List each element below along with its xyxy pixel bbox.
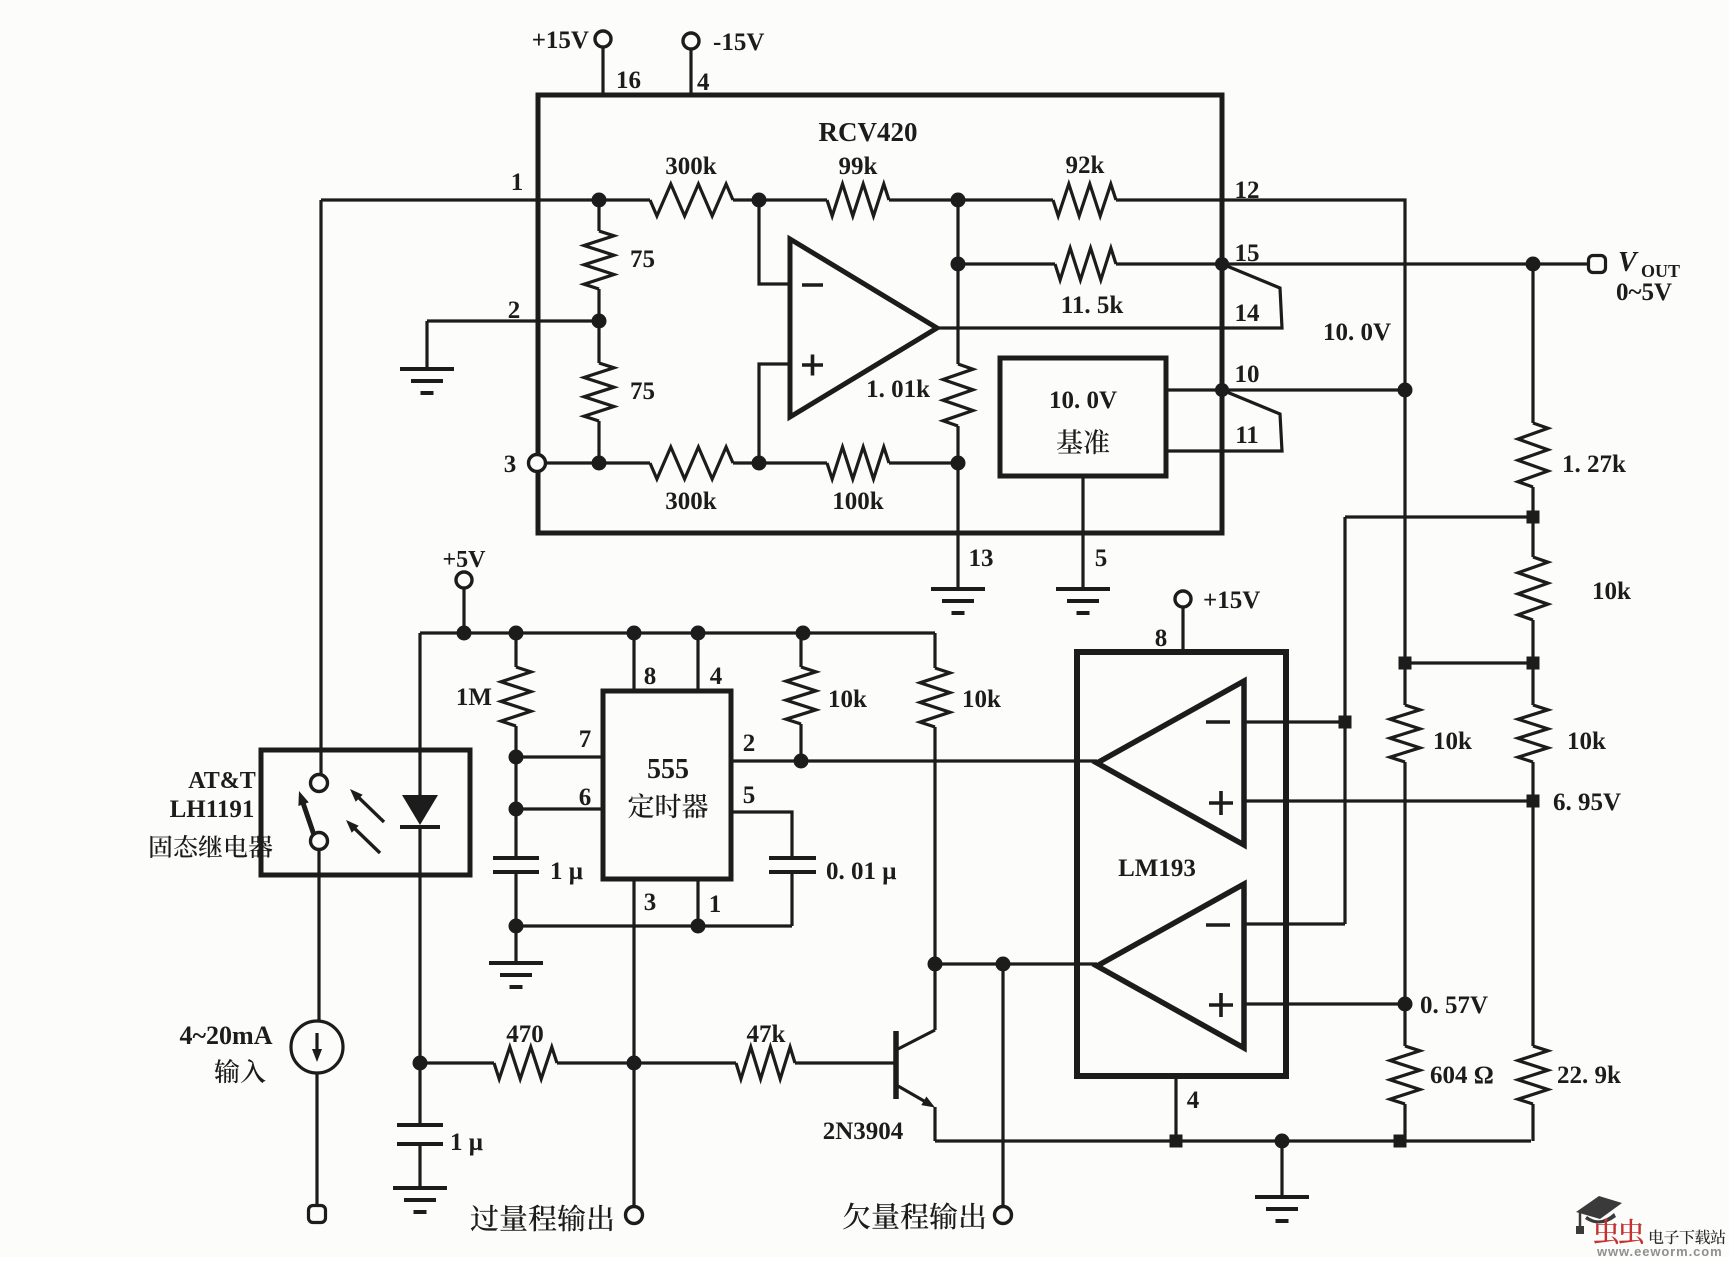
wire underrange output [1001,964,1004,1206]
junction upper comparator minus [1339,716,1352,729]
junction 555 pin 4 [691,626,706,641]
svg-text:4~20mA: 4~20mA [180,1021,273,1050]
junction node 0.57V [1398,997,1413,1012]
wire -15V to pin 4 [689,49,692,95]
wire 0.01u cap to ground row [790,872,793,926]
wire pin 13 to ground [956,533,959,589]
wire 1.01k to pin 13 [956,426,959,533]
wire 470 to 47k [557,1061,736,1064]
svg-text:16: 16 [616,67,641,94]
svg-text:1: 1 [511,169,524,196]
svg-text:14: 14 [1235,300,1261,327]
svg-text:10: 10 [1235,361,1260,388]
svg-text:604 Ω: 604 Ω [1430,1062,1494,1089]
ground at LM193 bus [1255,1197,1309,1221]
terminal +5V [456,572,472,588]
wire current source to input terminal [315,1073,318,1206]
resistor 604 ohm [1390,1046,1420,1104]
resistor 10k (above 0.57V) [1390,705,1420,762]
terminal 4-20mA input return [309,1206,326,1223]
resistor 100k [827,447,889,479]
junction tap B right [1527,657,1540,670]
resistor 1.27k [1518,423,1548,487]
junction pin1/75 top [592,193,607,208]
wire LED cathode node to 470 [420,1061,494,1064]
wire 555 pin 2 to comparator output [731,759,1097,762]
svg-text:11: 11 [1235,422,1259,449]
svg-text:6. 95V: 6. 95V [1553,789,1621,816]
wire reference out to pin 10 [1166,388,1222,391]
resistor 75 (upper) [597,200,600,231]
junction ground symbol [1275,1134,1290,1149]
resistor 75 (lower) [584,363,614,421]
resistor 300k (bottom) [650,447,733,479]
svg-text:470: 470 [506,1021,544,1048]
switch blade arrowhead [298,791,308,806]
svg-text:5: 5 [743,782,756,809]
svg-text:-15V: -15V [713,29,764,56]
relay switch lower contact [311,833,328,850]
wire 10k to tap B [1531,620,1534,663]
junction pin2/75 [592,314,607,329]
svg-text:75: 75 [630,378,655,405]
comparator U3B minus sign [1206,923,1230,927]
wire to 555 pin 6 [516,807,603,810]
wire collector diagonal [898,1030,935,1049]
junction cap ground node [509,919,524,934]
junction +5V [457,626,472,641]
wire VOUT down to 1.27k [1531,264,1534,423]
wire U3A plus input to 6.95V [1244,799,1531,802]
junction 1M top [509,626,524,641]
op-amp plus sign [802,355,823,376]
wire bus to 555 pin 4 [696,633,699,691]
svg-text:300k: 300k [665,488,717,515]
label GuTaiJiDianQi (solid state relay) [150,835,272,858]
wire emitter diagonal [898,1086,931,1105]
comparator U3A plus sign [1209,791,1233,815]
ground at pin 2 [400,369,454,393]
resistor 92k [1053,184,1116,216]
svg-text:1 μ: 1 μ [550,858,583,885]
svg-text:OUT: OUT [1641,261,1680,281]
svg-text:LM193: LM193 [1118,855,1196,882]
junction pin10 wire / 10.0V node [1398,383,1413,398]
wire +5V bus [420,631,935,634]
svg-text:300k: 300k [665,153,717,180]
comparator U3B plus sign [1209,993,1233,1017]
ground at 555 timing cap [489,963,543,987]
junction 10k/pin2 [794,754,809,769]
wire LM193 pin 4 to ground bus [1174,1076,1177,1141]
wire pin3 to 300k bottom [546,461,650,464]
terminal VOUT [1589,256,1606,273]
comparator U3A minus sign [1206,720,1230,724]
svg-text:10. 0V: 10. 0V [1049,387,1117,414]
svg-text:100k: 100k [832,488,884,515]
resistor 10k (timer, left) [799,633,802,667]
wire node to ground symbol [514,926,517,963]
wire 100k to 1.01k node [889,461,958,464]
ground at 1u filter cap [393,1188,447,1212]
op-amp minus sign [802,283,823,287]
svg-text:4: 4 [710,663,723,690]
svg-text:10k: 10k [828,686,867,713]
wire tap B row [1405,661,1533,664]
ground at pin 5 [1056,589,1110,613]
pin 11 to pin 10 external tie [1222,390,1282,451]
junction pin 6 [509,802,524,817]
svg-text:4: 4 [1187,1087,1200,1114]
wire 10k to 604 [1403,762,1406,1046]
svg-text:1M: 1M [456,684,492,711]
junction 10k timer top [796,626,811,641]
wire bus down to LED anode [418,633,421,795]
wire 555 pin 1 down [696,879,699,926]
capacitor 1u (filter) [397,1125,443,1144]
wire node to 1u filter cap [418,1063,421,1125]
wire 1u cap to ground [418,1144,421,1188]
junction 99k/92k [951,193,966,208]
wire internal node vertical (99k/92k to 1.01k) [956,200,959,364]
terminal overrange output [626,1207,643,1224]
resistor 11.5k [1055,248,1116,280]
svg-text:0. 57V: 0. 57V [1420,992,1488,1019]
resistor 10k (timer, right) [933,633,936,668]
wire RCV420 pin1 down to relay switch [319,200,322,774]
label DingShiQi (timer) [628,793,708,818]
label QianLiangChengShuChu (underrange output) [843,1202,985,1229]
wire tap A to comparator minus rail [1345,515,1533,518]
capacitor 1u (timing) [493,858,539,872]
label GuoLiangChengShuChu (overrange output) [471,1204,613,1231]
wire pin6 node to 1u cap [514,809,517,858]
wire +5V to bus [462,588,465,633]
IC U2 10.0V reference box [1000,358,1166,476]
terminal -15V (RCV420 pin 4) [683,33,699,49]
wire pin 10 to 10.0V node [1222,388,1405,391]
junction tap B left (10.0V node) [1399,657,1412,670]
wire 47k to base [795,1061,894,1064]
junction 300k/99k [752,193,767,208]
svg-text:8: 8 [1155,625,1168,652]
terminal +15V (LM193 pin 8) [1175,591,1191,607]
svg-text:AT&T: AT&T [188,768,256,794]
IC U1 RCV420 outline box [538,95,1222,533]
svg-text:1. 01k: 1. 01k [866,376,930,403]
junction 555 pin 1 [691,919,706,934]
junction pin4/ground bus [1170,1135,1183,1148]
svg-text:10k: 10k [1567,728,1606,755]
junction collector node [928,957,943,972]
relay switch blade [301,797,314,835]
svg-text:10. 0V: 10. 0V [1323,319,1391,346]
junction 555 pin 8 [627,626,642,641]
wire 1M to pin6 node [514,757,517,809]
junction node 6.95V [1527,795,1540,808]
label ShuRu (input) [214,1059,265,1083]
wire +15V to pin 16 [601,47,604,95]
wire cap to ground node [514,872,517,926]
wire U3A minus input [1244,720,1345,723]
terminal +15V (RCV420 pin 16) [595,31,611,47]
svg-text:V: V [1618,247,1639,278]
svg-text:92k: 92k [1066,152,1105,179]
wire 11.5k to pin 15 [1116,262,1222,265]
emitter arrowhead [921,1097,935,1108]
wire 6.95V down to 22.9k [1531,801,1534,1046]
wire 1.27k to 10k [1531,487,1534,557]
svg-text:+15V: +15V [1203,587,1260,614]
resistor 47k [736,1047,795,1079]
wire 555 pin 5 to 0.01u cap [731,812,792,858]
wire 10k down to transistor collector [933,727,936,1030]
svg-text:2: 2 [743,730,756,757]
junction pin 7 [509,750,524,765]
wire LED cathode down [418,827,421,1063]
wire comparator U3B output node [935,962,1097,965]
svg-text:1 μ: 1 μ [450,1129,483,1156]
wire reference out to pin 11 [1166,449,1222,452]
wire to 555 pin 7 [516,755,603,758]
wire pin1/pin5-cap ground row [516,924,792,927]
svg-text:0. 01 μ: 0. 01 μ [826,858,896,885]
junction LED/470/1u [413,1056,428,1071]
comparator U3A (upper) triangle [1097,681,1244,845]
resistor 1M [514,633,517,667]
wire 555 pin 3 down to overrange output [632,879,635,1206]
svg-text:1. 27k: 1. 27k [1562,451,1626,478]
wire U3B plus input to 0.57V [1244,1002,1405,1005]
wire +15V to LM193 pin 8 [1181,607,1184,652]
current source 4-20mA circle [291,1021,343,1073]
logo text ChongChong [1594,1219,1643,1245]
wire pin1 row left [321,198,650,201]
junction 100k/1.01k [951,456,966,471]
wire ground bus [935,1139,1531,1142]
junction pin3/75 [592,456,607,471]
relay switch upper contact [311,775,328,792]
junction pin 10 [1215,383,1229,397]
svg-text:6: 6 [579,784,592,811]
svg-text:2N3904: 2N3904 [823,1118,904,1145]
wire to op-amp inverting input [759,200,790,284]
junction 300k/100k bottom [752,456,767,471]
svg-text:99k: 99k [839,153,878,180]
wire pin 12 down right side [1222,200,1405,663]
junction pin3/470-47k row [627,1056,642,1071]
svg-text:13: 13 [969,545,994,572]
wire 300k to 99k [733,198,827,201]
wire node to 11.5k [958,262,1055,265]
wire 604 to ground bus [1403,1104,1406,1141]
capacitor 0.01u [769,858,816,872]
resistor 10k (above 6.95V) [1518,705,1548,762]
resistor 1.01k [943,364,973,426]
wire pin2 to ground [425,321,428,369]
svg-text:0~5V: 0~5V [1616,279,1672,306]
transistor Q1 2N3904 base bar [893,1031,899,1099]
wire reference to pin 5 ground [1081,476,1084,589]
wire tap A down to comparator minus inputs [1343,517,1346,924]
wire relay lower contact to current source [317,850,320,1021]
svg-text:47k: 47k [747,1021,786,1048]
ground at pin 13 [931,589,985,613]
junction 11.5k left end [951,257,966,272]
wire 92k to pin 12 [1116,198,1222,201]
junction VOUT / 1.27k [1526,257,1541,272]
svg-text:4: 4 [697,69,710,96]
junction divider tap A [1527,511,1540,524]
svg-text:10k: 10k [962,686,1001,713]
svg-text:RCV420: RCV420 [819,117,918,147]
wire emitter to ground bus [933,1107,936,1141]
pin 14 to pin 15 external tie [1222,264,1282,328]
optocoupler arrow 1 [354,793,384,822]
wire 300k to 100k [733,461,827,464]
wire bus to ground symbol [1280,1141,1283,1197]
IC U3 LM193 outline box [1077,652,1286,1076]
current source arrow [315,1033,318,1052]
IC U4 555 timer outline box [603,691,731,879]
IC U5 AT&T LH1191 solid-state relay box [261,750,470,875]
logo eeworm graduation cap icon [1576,1196,1622,1234]
svg-text:www.eeworm.com: www.eeworm.com [1596,1244,1723,1257]
svg-text:3: 3 [504,451,517,478]
wire U3B minus input [1244,922,1345,925]
svg-text:1: 1 [709,891,722,918]
resistor 470 [494,1047,557,1079]
wire pin 2 [427,319,599,322]
junction 604 ground [1394,1135,1407,1148]
resistor 300k (top) [650,184,733,216]
op-amp U1A (RCV420 internal) [790,239,937,417]
logo text DianZiXiaZaiZhan [1650,1229,1725,1244]
terminal pin 3 (open circle) [529,455,546,472]
resistor 99k [827,184,889,216]
terminal underrange output [995,1207,1012,1224]
svg-text:+5V: +5V [442,547,486,573]
svg-text:+15V: +15V [532,27,589,54]
junction pin 15 [1215,257,1229,271]
svg-text:555: 555 [647,754,689,785]
wire 10.0V node down [1403,663,1406,705]
resistor 22.9k [1518,1046,1548,1104]
svg-text:LH1191: LH1191 [170,796,255,823]
svg-text:10k: 10k [1433,728,1472,755]
resistor 10k (right chain upper) [1518,557,1548,620]
optocoupler arrow 2 [350,824,380,853]
svg-text:8: 8 [644,663,657,690]
LED D1 in relay [402,795,438,825]
svg-text:22. 9k: 22. 9k [1557,1062,1621,1089]
wire bus to 555 pin 8 [632,633,635,691]
svg-text:3: 3 [644,889,657,916]
svg-text:5: 5 [1095,545,1108,572]
comparator U3B (lower) triangle [1097,884,1244,1048]
svg-text:7: 7 [579,726,592,753]
svg-text:75: 75 [630,246,655,273]
wire 22.9k to ground bus [1531,1104,1534,1141]
wire 99k to 92k [889,198,1053,201]
svg-text:11. 5k: 11. 5k [1061,292,1124,319]
svg-text:10k: 10k [1592,578,1631,605]
wire pin 15 to VOUT [1222,262,1588,265]
junction underrange branch [996,957,1011,972]
wire to op-amp non-inverting input [759,364,790,463]
wire op-amp output to pin 14 [937,326,1222,329]
label JiZhun (reference) [1057,429,1109,454]
